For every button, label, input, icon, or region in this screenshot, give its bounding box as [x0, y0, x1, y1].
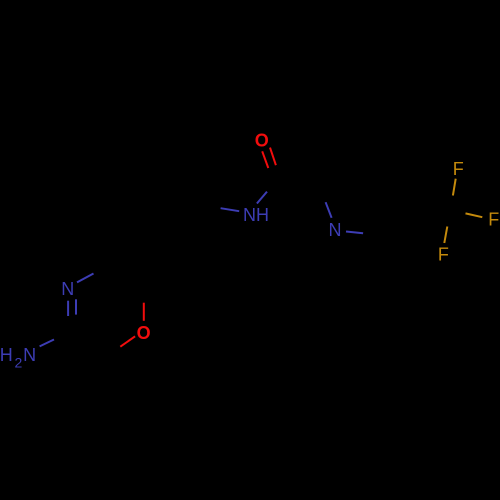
svg-text:N: N — [329, 220, 342, 240]
bond CF3 carbon to bottom F (orange half) — [444, 227, 447, 244]
svg-text:N: N — [61, 279, 74, 299]
bond pyridine N up-left to ring carbon (blue half) — [326, 202, 332, 218]
bond NH to carbonyl carbon (blue half) — [257, 192, 267, 204]
svg-text:F: F — [488, 209, 499, 229]
svg-text:2: 2 — [15, 354, 23, 370]
bond H2N to ring carbon (blue half) — [40, 340, 54, 347]
bond NH to benzylic carbon, going left (blue half) — [221, 208, 240, 211]
C=O double bond (red half), line 1 — [262, 151, 268, 168]
svg-text:F: F — [453, 159, 464, 179]
svg-text:NH: NH — [243, 205, 269, 225]
C=N double bond (blue half), inner line — [75, 299, 77, 314]
C=O double bond (red half), line 2 — [270, 148, 276, 166]
bond CF3 carbon to right F (orange half) — [466, 213, 483, 217]
svg-text:O: O — [137, 323, 151, 343]
C=N double bond (blue half), outer line — [67, 301, 69, 316]
bond CF3 carbon to top F (orange half) — [453, 179, 456, 196]
bond pyridine N right to ring carbon (blue half) — [346, 232, 363, 234]
svg-text:N: N — [23, 345, 36, 365]
svg-text:F: F — [438, 245, 449, 265]
bond ring O down-left to ring carbon (red half) — [120, 336, 135, 346]
bond ring O up to ring carbon (red half) — [143, 303, 145, 321]
bond ring N up-right to ring carbon (blue half) — [77, 274, 94, 283]
svg-text:H: H — [0, 345, 13, 365]
svg-text:O: O — [255, 130, 269, 150]
